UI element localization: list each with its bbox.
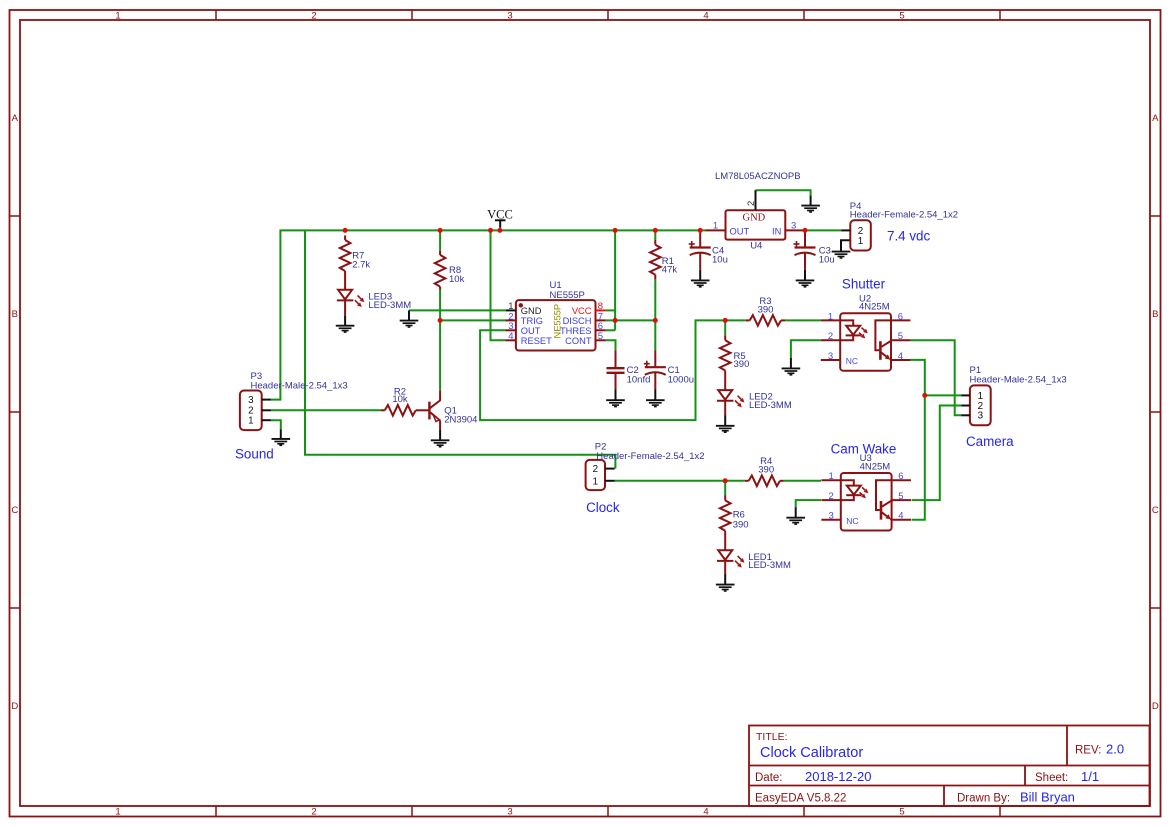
svg-text:5: 5: [899, 807, 904, 818]
svg-text:5: 5: [898, 331, 903, 342]
svg-text:B: B: [1152, 309, 1158, 320]
svg-text:D: D: [1152, 701, 1159, 712]
svg-text:390: 390: [758, 465, 774, 476]
svg-text:2.7k: 2.7k: [352, 260, 370, 271]
svg-text:1: 1: [858, 236, 863, 247]
svg-text:LED-3MM: LED-3MM: [749, 400, 792, 411]
svg-text:10k: 10k: [392, 394, 408, 405]
svg-text:D: D: [11, 701, 18, 712]
svg-text:A: A: [1152, 113, 1159, 124]
svg-text:2: 2: [311, 807, 316, 818]
svg-text:1: 1: [248, 416, 253, 427]
svg-text:B: B: [12, 309, 18, 320]
svg-text:47k: 47k: [662, 264, 678, 275]
svg-text:LED-3MM: LED-3MM: [368, 300, 411, 311]
svg-text:Cam Wake: Cam Wake: [831, 442, 897, 457]
svg-text:Camera: Camera: [966, 434, 1014, 449]
svg-text:DISCH: DISCH: [563, 316, 592, 326]
svg-text:Header-Female-2.54_1x2: Header-Female-2.54_1x2: [596, 451, 704, 462]
svg-text:5: 5: [898, 491, 903, 502]
svg-text:2: 2: [829, 491, 834, 502]
svg-text:2: 2: [311, 10, 316, 21]
svg-text:C: C: [11, 505, 18, 516]
svg-text:NC: NC: [846, 356, 858, 366]
svg-text:6: 6: [898, 471, 903, 482]
svg-text:A: A: [12, 113, 19, 124]
svg-text:Header-Female-2.54_1x2: Header-Female-2.54_1x2: [850, 209, 958, 220]
svg-text:2N3904: 2N3904: [444, 415, 477, 426]
svg-text:10nfd: 10nfd: [627, 375, 651, 386]
svg-text:NE555P: NE555P: [553, 304, 563, 339]
svg-text:4N25M: 4N25M: [860, 461, 891, 472]
svg-text:EasyEDA V5.8.22: EasyEDA V5.8.22: [755, 793, 846, 805]
svg-text:NC: NC: [846, 516, 858, 526]
svg-text:Drawn By:: Drawn By:: [957, 793, 1010, 805]
svg-text:RESET: RESET: [521, 336, 552, 346]
svg-text:2: 2: [746, 201, 757, 206]
svg-text:4: 4: [703, 10, 708, 21]
svg-text:10u: 10u: [712, 255, 728, 266]
svg-text:VCC: VCC: [487, 207, 513, 221]
svg-text:1: 1: [593, 476, 598, 487]
svg-text:3: 3: [829, 511, 834, 522]
svg-text:4: 4: [898, 511, 903, 522]
svg-text:Header-Male-2.54_1x3: Header-Male-2.54_1x3: [970, 375, 1067, 386]
svg-text:3: 3: [507, 10, 512, 21]
svg-text:390: 390: [758, 304, 774, 315]
svg-text:3: 3: [791, 221, 796, 232]
svg-text:390: 390: [734, 359, 750, 370]
svg-text:4: 4: [898, 351, 903, 362]
svg-text:Clock Calibrator: Clock Calibrator: [760, 745, 863, 761]
svg-text:1000u: 1000u: [668, 375, 694, 386]
svg-text:2: 2: [828, 331, 833, 342]
svg-text:CONT: CONT: [565, 336, 592, 346]
svg-text:390: 390: [733, 520, 749, 531]
svg-text:1: 1: [828, 311, 833, 322]
svg-text:REV:: REV:: [1075, 745, 1101, 757]
svg-text:1: 1: [713, 221, 718, 232]
svg-text:1/1: 1/1: [1081, 769, 1099, 784]
svg-text:4N25M: 4N25M: [859, 302, 890, 313]
svg-text:LM78L05ACZNOPB: LM78L05ACZNOPB: [715, 171, 801, 182]
svg-text:OUT: OUT: [521, 326, 541, 336]
svg-text:1: 1: [829, 471, 834, 482]
svg-text:Sound: Sound: [235, 447, 274, 462]
svg-text:2018-12-20: 2018-12-20: [805, 769, 872, 784]
svg-text:Sheet:: Sheet:: [1035, 772, 1068, 784]
svg-text:1: 1: [115, 10, 120, 21]
svg-text:7.4 vdc: 7.4 vdc: [887, 229, 930, 244]
svg-text:Clock: Clock: [586, 500, 620, 515]
svg-text:Date:: Date:: [755, 772, 783, 784]
svg-text:5: 5: [899, 10, 904, 21]
svg-text:3: 3: [828, 351, 833, 362]
svg-text:VCC: VCC: [572, 306, 592, 316]
svg-text:OUT: OUT: [730, 226, 750, 236]
svg-text:3: 3: [978, 411, 984, 422]
svg-text:Bill Bryan: Bill Bryan: [1020, 790, 1075, 805]
svg-text:Header-Male-2.54_1x3: Header-Male-2.54_1x3: [251, 380, 348, 391]
svg-text:IN: IN: [772, 226, 781, 236]
svg-text:10k: 10k: [449, 274, 465, 285]
svg-text:C: C: [1152, 505, 1159, 516]
svg-text:3: 3: [248, 395, 254, 406]
svg-text:4: 4: [508, 331, 513, 342]
svg-text:TITLE:: TITLE:: [756, 731, 788, 743]
svg-text:10u: 10u: [819, 255, 835, 266]
svg-text:3: 3: [507, 807, 512, 818]
svg-text:GND: GND: [743, 213, 766, 224]
svg-text:1: 1: [115, 807, 120, 818]
svg-text:THRES: THRES: [560, 326, 592, 336]
svg-text:Shutter: Shutter: [842, 277, 886, 292]
svg-text:5: 5: [598, 331, 603, 342]
svg-text:U4: U4: [750, 241, 762, 252]
svg-text:GND: GND: [521, 306, 542, 316]
svg-text:TRIG: TRIG: [521, 316, 543, 326]
svg-text:LED-3MM: LED-3MM: [748, 560, 791, 571]
svg-text:NE555P: NE555P: [550, 290, 585, 301]
svg-text:2.0: 2.0: [1106, 742, 1124, 757]
svg-text:6: 6: [898, 311, 903, 322]
svg-text:2: 2: [593, 464, 598, 475]
svg-text:4: 4: [703, 807, 708, 818]
